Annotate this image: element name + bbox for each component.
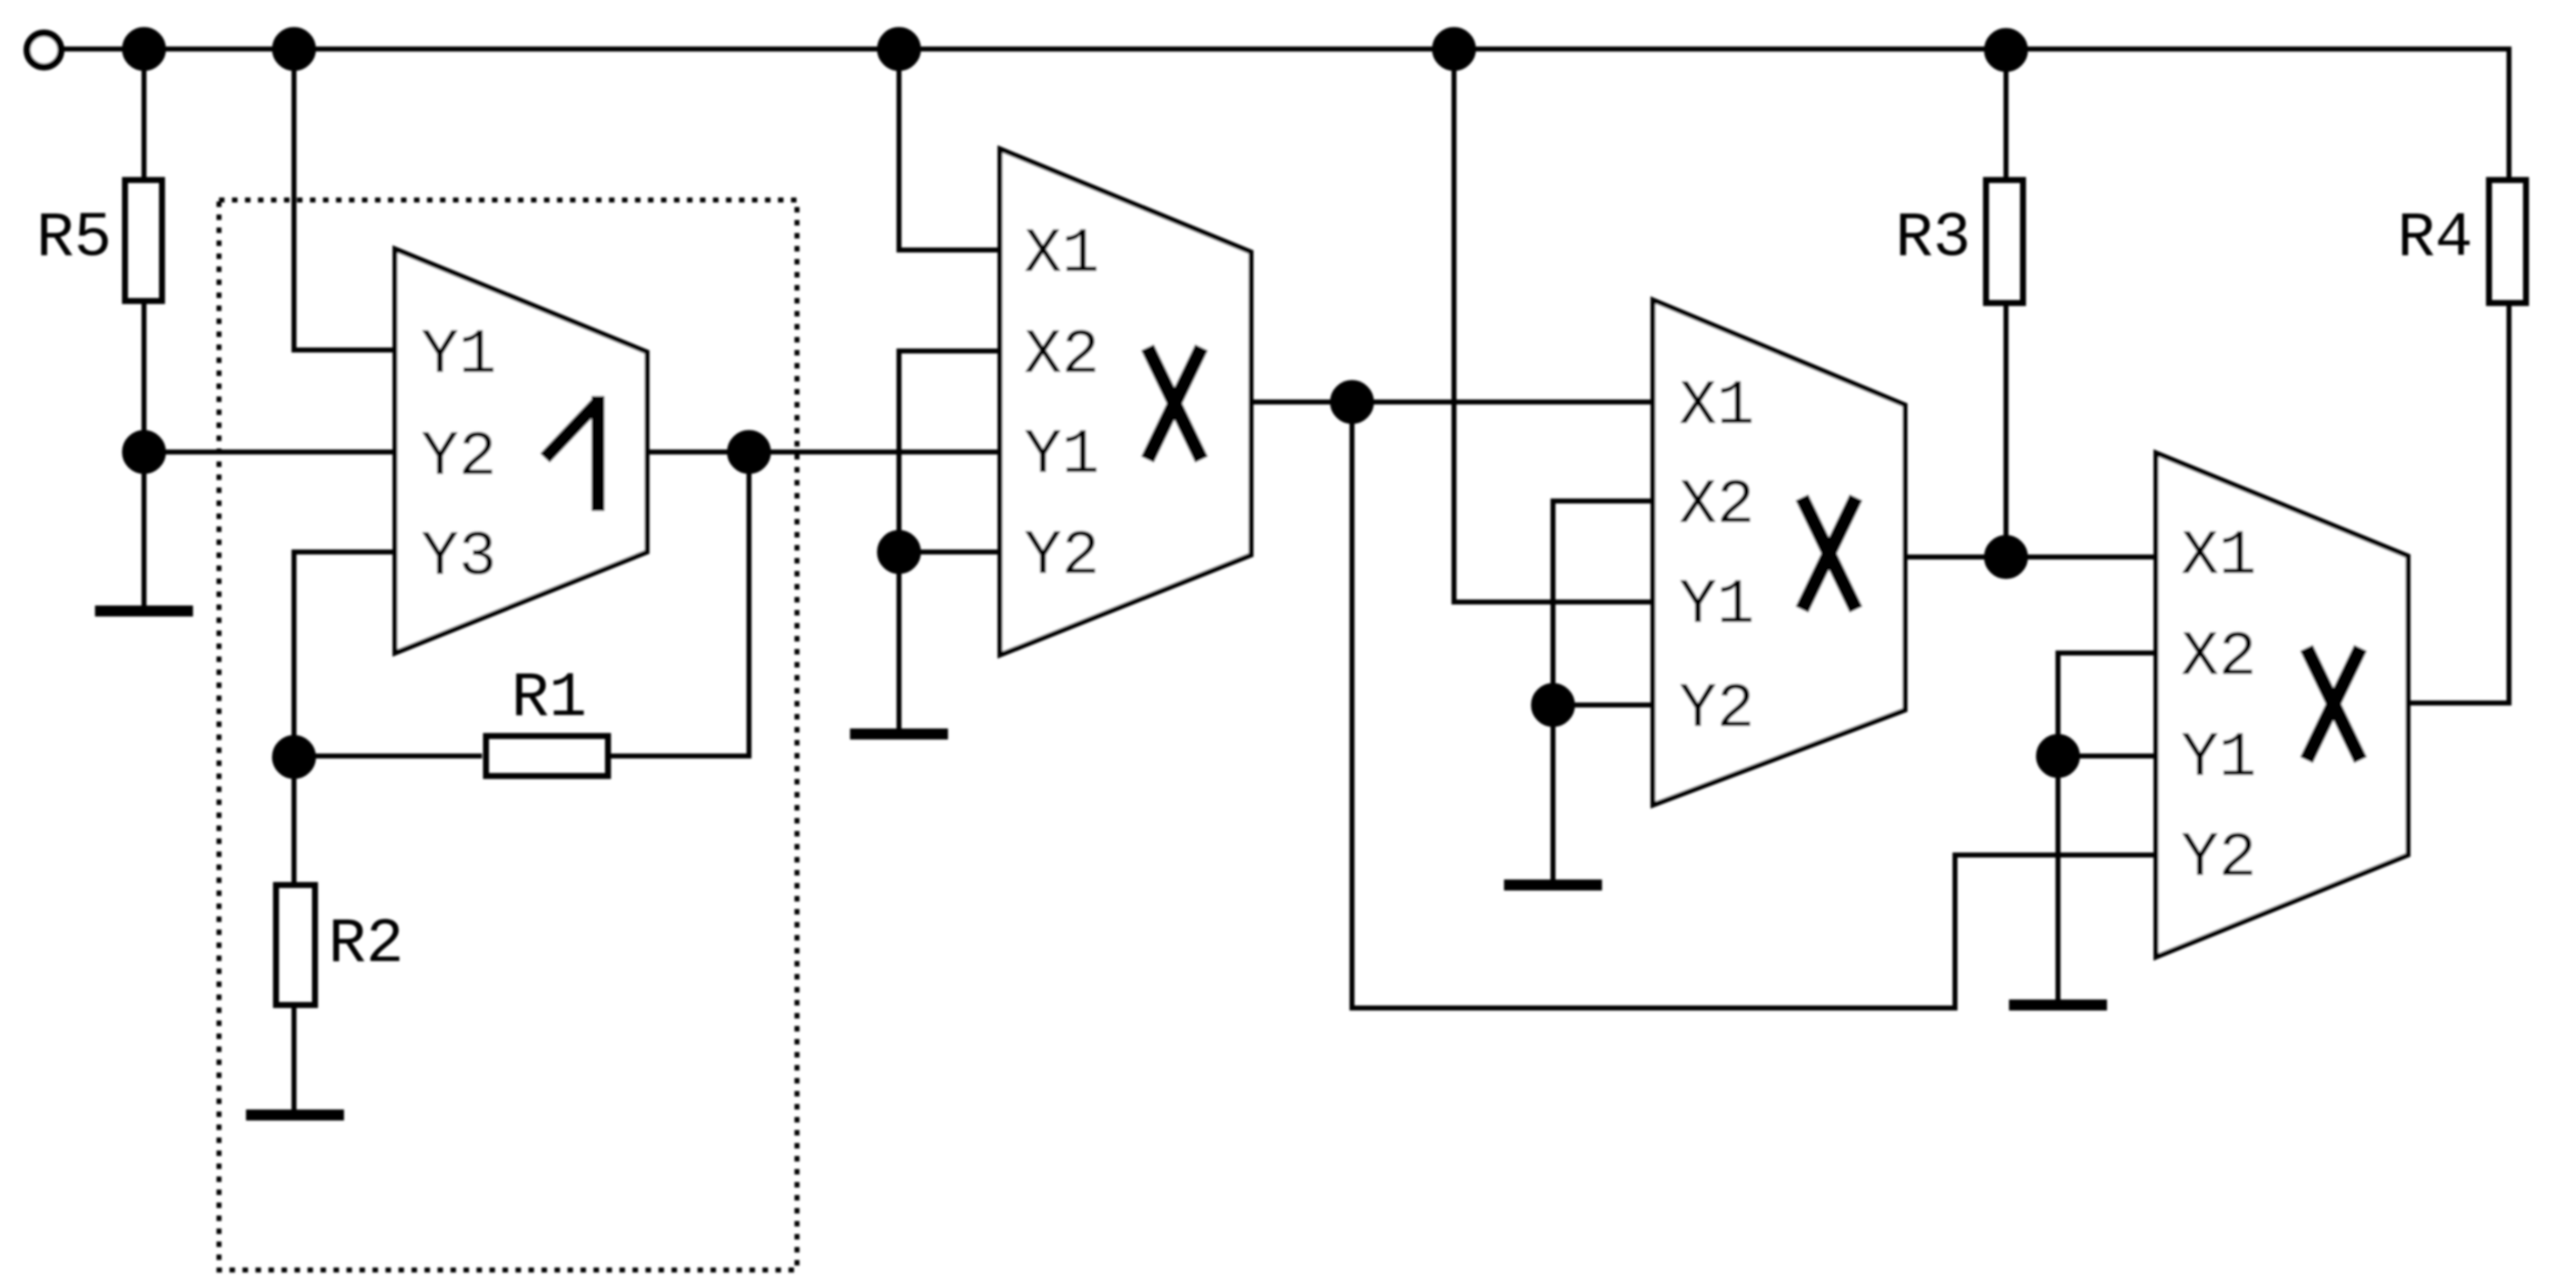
node Y2 tap <box>125 433 164 472</box>
wire R1 left <box>294 754 482 759</box>
dotted enclosure box <box>219 200 797 1270</box>
svg-text:Y3: Y3 <box>421 522 497 593</box>
node top rail A <box>125 30 164 69</box>
svg-text:Y1: Y1 <box>2181 723 2257 794</box>
svg-text:Y2: Y2 <box>1679 674 1755 745</box>
svg-text:R3: R3 <box>1895 203 1971 274</box>
wire U2 X2 to ground rail <box>899 351 1000 729</box>
node U3 output <box>1987 538 2026 577</box>
node U2 ground junction <box>880 533 919 572</box>
wire U3 output to U4 X1 <box>1905 555 2156 560</box>
gain symbol 1 in U1 <box>545 396 599 511</box>
ground for U2 <box>850 729 948 740</box>
wire R2 bottom <box>292 1008 297 1110</box>
svg-text:X2: X2 <box>1679 470 1755 541</box>
wire U4 Y1 <box>2058 754 2156 759</box>
wire R2 top <box>292 757 297 882</box>
wire top rail <box>61 49 2509 177</box>
svg-text:R5: R5 <box>36 203 112 274</box>
wire R5 top drop <box>142 49 147 177</box>
svg-text:Y1: Y1 <box>1679 570 1755 641</box>
resistor R4 <box>2489 180 2526 303</box>
wire Y2 input <box>144 450 395 455</box>
ground for U4 <box>2009 1000 2107 1011</box>
svg-text:Y1: Y1 <box>1024 420 1100 491</box>
node top rail B <box>275 30 314 69</box>
svg-text:Y2: Y2 <box>421 422 497 493</box>
node U1 output <box>730 433 769 472</box>
svg-text:X1: X1 <box>1024 219 1100 290</box>
svg-text:Y2: Y2 <box>2181 823 2257 894</box>
multiply symbol X in U3 <box>1802 498 1856 610</box>
svg-text:R4: R4 <box>2397 203 2473 274</box>
node top rail C <box>880 30 919 69</box>
wire U1 output to U2 Y1 <box>647 450 1000 455</box>
wire U3 X2 to ground <box>1553 501 1653 885</box>
svg-text:R1: R1 <box>511 663 587 734</box>
node R1/R2 junction <box>275 738 314 777</box>
svg-text:X2: X2 <box>1024 320 1100 391</box>
svg-text:R2: R2 <box>328 909 404 980</box>
ground for U3 <box>1504 880 1602 891</box>
wire U2 output to U3 X1 <box>1251 400 1653 405</box>
svg-text:X2: X2 <box>2181 622 2257 693</box>
resistor R2 <box>276 885 315 1005</box>
wire R3 bottom <box>2004 306 2009 557</box>
wire U4 output to R4 <box>2408 306 2509 703</box>
node U2 output <box>1333 383 1372 422</box>
node U3 ground junction <box>1534 686 1573 725</box>
multiplier U4 <box>2156 453 2408 957</box>
resistor R5 <box>125 180 162 301</box>
wire R1 right feedback <box>608 452 749 756</box>
svg-text:Y2: Y2 <box>1024 521 1100 592</box>
multiplier U2 <box>1000 149 1251 655</box>
multiply symbol X in U4 <box>2307 648 2361 760</box>
node U4 ground junction <box>2039 737 2078 776</box>
wire U3 Y1 drop <box>1454 49 1653 602</box>
wire R3 drop <box>2004 49 2009 177</box>
op-amp U1 summing amplifier <box>395 249 647 653</box>
input terminal <box>27 33 61 67</box>
wire U3 Y2 <box>1553 703 1653 708</box>
ground for R5 <box>95 606 193 617</box>
svg-text:X1: X1 <box>2181 521 2257 592</box>
wire R5 bottom <box>142 304 147 606</box>
wire U2 X1 drop <box>899 49 1000 250</box>
wire Y3 input <box>294 552 395 757</box>
svg-text:X1: X1 <box>1679 371 1755 442</box>
wire U2 Y2 <box>899 550 1000 555</box>
ground for R2 <box>246 1110 344 1121</box>
resistor R1 <box>486 736 608 776</box>
svg-text:Y1: Y1 <box>421 320 497 391</box>
multiplier U3 <box>1653 300 1905 805</box>
node top rail D <box>1435 30 1474 69</box>
multiply symbol X in U2 <box>1148 348 1202 460</box>
wire Y1 input drop <box>294 49 395 350</box>
wire feedback to U4 Y2 <box>1352 402 2156 1008</box>
wire U4 X2 to ground <box>2058 653 2156 1000</box>
resistor R3 <box>1986 180 2023 303</box>
node top rail E <box>1987 31 2026 70</box>
